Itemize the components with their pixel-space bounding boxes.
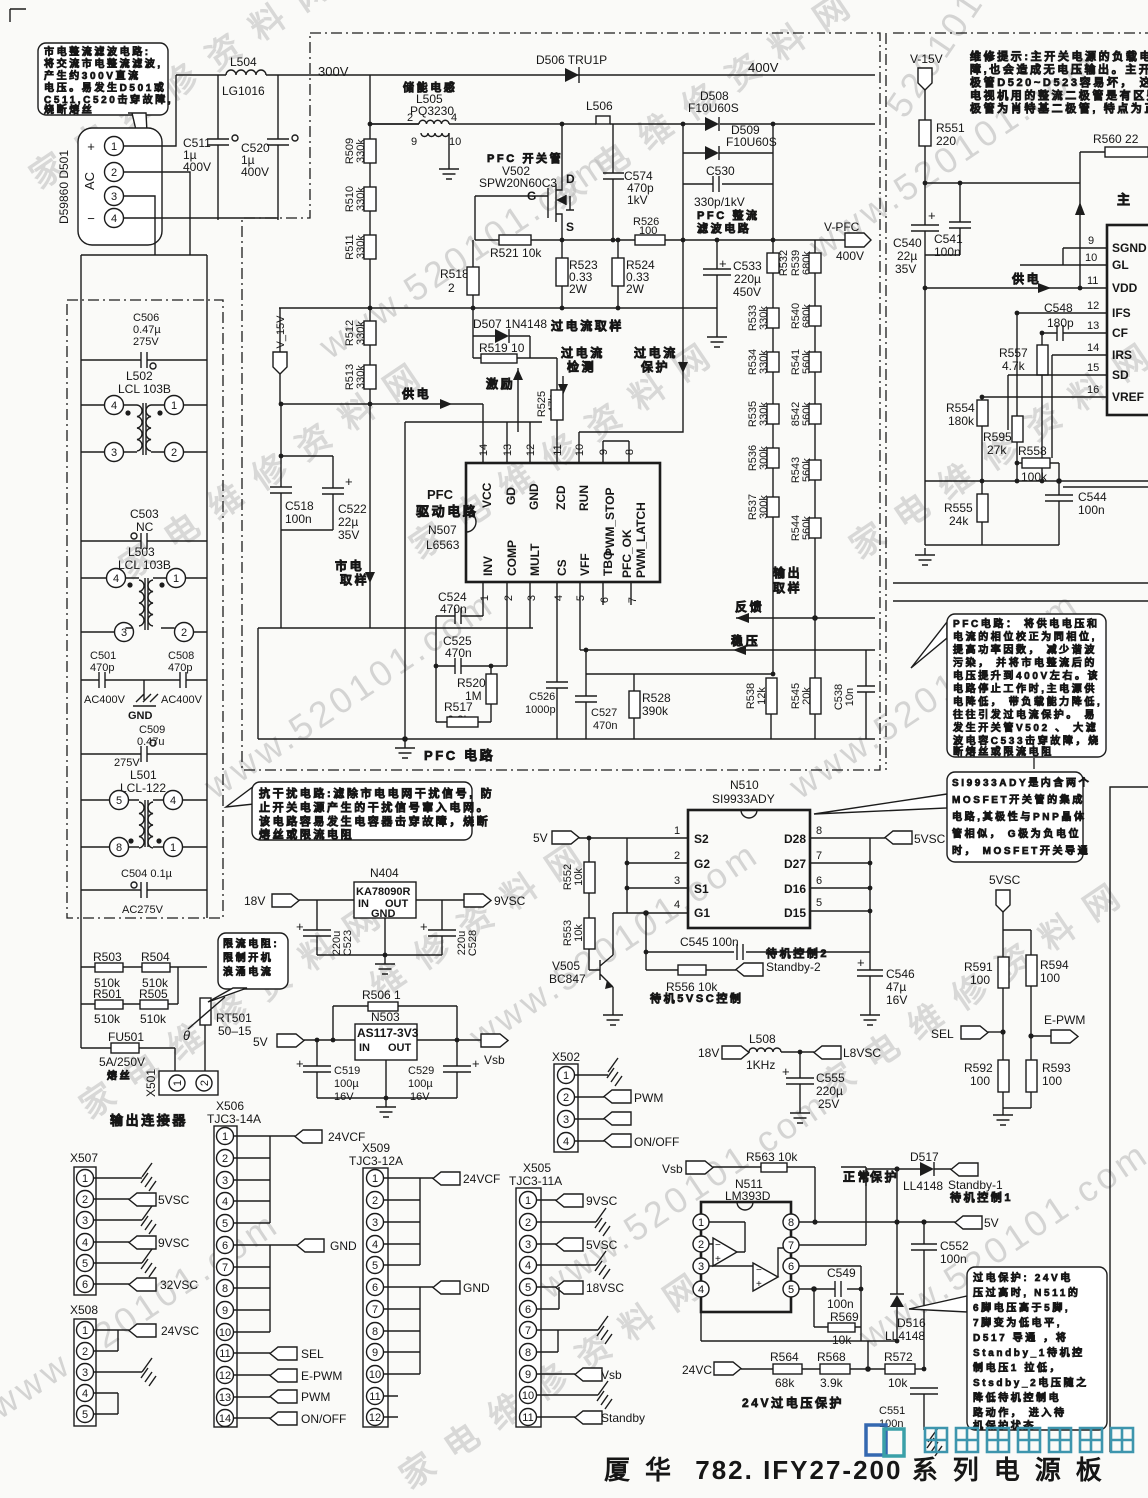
svg-text:IN: IN — [358, 898, 369, 910]
svg-text:C552: C552 — [940, 1239, 969, 1253]
svg-text:LCL-122: LCL-122 — [120, 781, 166, 795]
capacitor C541 — [925, 183, 971, 259]
svg-text:G2: G2 — [694, 857, 710, 871]
svg-text:8: 8 — [624, 449, 636, 455]
wire n404 gnd — [317, 918, 442, 955]
svg-text:障,也会造成无电压输出。主开关: 障,也会造成无电压输出。主开关 — [970, 62, 1148, 76]
svg-text:10: 10 — [449, 136, 461, 148]
ground GND — [128, 680, 158, 722]
svg-text:4: 4 — [222, 1196, 228, 1208]
supply tag V-15V — [910, 52, 943, 120]
connector X506 TJC3-14A — [207, 1099, 261, 1427]
svg-text:COMP: COMP — [505, 540, 519, 576]
capacitor C533 — [703, 240, 762, 330]
svg-text:市电整流滤波电路:: 市电整流滤波电路: — [44, 45, 151, 58]
svg-text:4: 4 — [82, 1388, 88, 1400]
resistor R521 — [490, 235, 542, 260]
svg-text:2: 2 — [407, 112, 413, 124]
diode D508 F10U60S — [688, 89, 739, 131]
svg-text:9: 9 — [411, 136, 417, 148]
svg-text:C522: C522 — [338, 502, 367, 516]
callout: 24V overvoltage protect note — [909, 1267, 1107, 1432]
svg-text:PFC 电路: PFC 电路 — [424, 748, 495, 763]
resistor R552 — [562, 838, 595, 918]
capacitor C552 — [911, 1222, 969, 1369]
svg-text:1000p: 1000p — [525, 704, 556, 716]
svg-text:R520: R520 — [457, 676, 486, 690]
connector X508 — [70, 1303, 98, 1426]
svg-text:13: 13 — [219, 1392, 231, 1404]
svg-text:SEL: SEL — [301, 1347, 324, 1361]
svg-text:6: 6 — [222, 1240, 228, 1252]
capacitor C530 — [683, 164, 773, 235]
svg-text:12: 12 — [525, 444, 537, 456]
svg-text:SEL: SEL — [931, 1027, 954, 1041]
N507 top pin names — [480, 482, 648, 578]
resistor R512 — [344, 320, 376, 346]
wire comparator feedback — [701, 1297, 897, 1369]
svg-text:过电流: 过电流 — [561, 345, 605, 360]
svg-text:电路停止工作时,主电源供: 电路停止工作时,主电源供 — [953, 682, 1097, 695]
svg-text:24VSC: 24VSC — [161, 1324, 199, 1338]
svg-text:2: 2 — [171, 447, 177, 459]
junction dots right — [923, 181, 1083, 484]
resistor R556 standby drive — [646, 965, 736, 994]
wire HV rail — [370, 123, 875, 125]
svg-text:2: 2 — [698, 1239, 704, 1251]
label overcurrent protect — [579, 240, 688, 463]
svg-text:制电压1 拉低，: 制电压1 拉低， — [973, 1361, 1062, 1374]
svg-text:+: + — [296, 1056, 304, 1071]
wire regulation — [580, 582, 875, 655]
svg-text:R532: R532 — [778, 250, 790, 276]
capacitor C549 — [799, 1266, 861, 1311]
tag 9VSC out — [416, 894, 526, 908]
svg-text:Vsb: Vsb — [484, 1053, 505, 1067]
svg-text:450V: 450V — [733, 285, 761, 299]
svg-text:1: 1 — [563, 1070, 569, 1082]
svg-text:−: − — [756, 1265, 762, 1276]
svg-text:16V: 16V — [410, 1091, 430, 1103]
svg-text:1: 1 — [222, 1131, 228, 1143]
svg-text:LCL 103B: LCL 103B — [118, 382, 171, 396]
divider ladder A R532-R537 — [747, 250, 790, 674]
svg-text:R521 10k: R521 10k — [490, 246, 542, 260]
resistor R506 — [333, 988, 457, 1040]
svg-text:24VC: 24VC — [682, 1363, 712, 1377]
svg-text:4: 4 — [698, 1284, 704, 1296]
svg-text:C527: C527 — [591, 707, 617, 719]
svg-text:E-PWM: E-PWM — [301, 1369, 342, 1383]
svg-text:220µ: 220µ — [734, 272, 761, 286]
wire lower bus — [925, 481, 1148, 545]
resistor R564 — [770, 1350, 820, 1390]
svg-text:10: 10 — [1085, 252, 1097, 264]
svg-text:4: 4 — [674, 899, 680, 911]
svg-text:R572: R572 — [884, 1350, 913, 1364]
diode D516 LL4148 — [885, 1294, 926, 1343]
X506 24VCF bus — [234, 1136, 295, 1223]
svg-text:C509: C509 — [139, 724, 165, 736]
svg-text:24VCF: 24VCF — [328, 1130, 365, 1144]
svg-text:驱动电路: 驱动电路 — [416, 504, 478, 519]
svg-text:470p: 470p — [90, 662, 114, 674]
svg-text:PWM: PWM — [301, 1390, 330, 1404]
svg-text:10: 10 — [219, 1327, 231, 1339]
svg-text:C540: C540 — [893, 236, 922, 250]
resistor R524 — [612, 240, 655, 308]
diode D509 F10U60S — [683, 123, 777, 160]
svg-text:300V: 300V — [318, 64, 349, 79]
svg-text:470n: 470n — [593, 720, 617, 732]
svg-text:RUN: RUN — [577, 485, 591, 511]
svg-text:7: 7 — [627, 597, 639, 603]
wire VDD supply — [925, 271, 1107, 293]
svg-text:R564: R564 — [770, 1350, 799, 1364]
capacitor C555 — [782, 1050, 845, 1111]
junction dots n510 — [587, 836, 873, 955]
svg-text:D516: D516 — [897, 1316, 926, 1330]
svg-text:机保护状态: 机保护状态 — [973, 1419, 1036, 1432]
svg-text:SPW20N60C3: SPW20N60C3 — [479, 176, 557, 190]
svg-text:5: 5 — [816, 897, 822, 909]
svg-text:9: 9 — [372, 1347, 378, 1359]
svg-text:GD: GD — [504, 487, 518, 505]
svg-text:1: 1 — [170, 842, 176, 854]
svg-text:R554: R554 — [946, 401, 975, 415]
svg-text:输出: 输出 — [773, 565, 802, 580]
svg-text:电降低， 带负载能力降低,: 电降低， 带负载能力降低, — [953, 695, 1102, 708]
svg-text:发生开关管V502 、 大滤: 发生开关管V502 、 大滤 — [952, 721, 1098, 734]
svg-text:7: 7 — [372, 1304, 378, 1316]
svg-text:S: S — [566, 220, 574, 234]
svg-text:12: 12 — [1087, 300, 1099, 312]
svg-text:13: 13 — [1087, 320, 1099, 332]
svg-text:4.7k: 4.7k — [1002, 359, 1026, 373]
svg-text:4: 4 — [563, 1136, 569, 1148]
svg-text:16V: 16V — [334, 1091, 354, 1103]
svg-text:CF: CF — [1112, 326, 1128, 340]
tag 24VC — [682, 1362, 773, 1377]
svg-text:1: 1 — [525, 1195, 531, 1207]
svg-text:1: 1 — [172, 1080, 184, 1086]
label normal protect — [841, 1167, 899, 1186]
svg-text:5VSC: 5VSC — [989, 873, 1021, 887]
wire divider column — [369, 75, 371, 628]
svg-text:−: − — [715, 1240, 721, 1251]
svg-text:PFC电路： 将供电电压和: PFC电路： 将供电电压和 — [953, 617, 1100, 630]
svg-text:C545 100n: C545 100n — [680, 935, 739, 949]
capacitor C509 — [81, 724, 207, 769]
svg-text:5: 5 — [82, 1409, 88, 1421]
svg-text:2: 2 — [222, 1153, 228, 1165]
resistor R560 — [1075, 132, 1148, 288]
svg-text:波电容C533击穿故障，烧: 波电容C533击穿故障，烧 — [953, 734, 1101, 747]
svg-text:PFC 整流: PFC 整流 — [697, 208, 760, 222]
svg-text:断熔丝或限流电阻: 断熔丝或限流电阻 — [953, 745, 1054, 758]
svg-text:VREF: VREF — [1112, 390, 1144, 404]
resistor R504 — [141, 950, 170, 990]
svg-text:C518: C518 — [285, 499, 314, 513]
capacitor C574 — [603, 124, 654, 240]
svg-text:X505: X505 — [523, 1161, 551, 1175]
svg-text:往往引发过电流保护。 易: 往往引发过电流保护。 易 — [953, 708, 1097, 721]
divider ladder B R539-R544 — [790, 240, 821, 678]
svg-text:+: + — [928, 208, 936, 223]
N507 bottom pin numbers — [479, 595, 639, 603]
resistor R558 — [1017, 444, 1059, 484]
capacitor C518 — [270, 404, 314, 530]
svg-text:C519: C519 — [334, 1065, 360, 1077]
svg-text:1: 1 — [82, 1325, 88, 1337]
X502 pin4 ON/OFF — [574, 1140, 604, 1142]
svg-text:C551: C551 — [879, 1405, 905, 1417]
svg-text:取样: 取样 — [773, 580, 802, 595]
svg-text:C529: C529 — [408, 1065, 434, 1077]
svg-text:X509: X509 — [362, 1141, 390, 1155]
resistor R555 — [944, 494, 988, 545]
capacitor C544 — [1045, 481, 1107, 545]
svg-text:ON/OFF: ON/OFF — [634, 1135, 679, 1149]
svg-text:烧断熔丝: 烧断熔丝 — [44, 103, 94, 116]
svg-text:N404: N404 — [370, 866, 399, 880]
svg-text:F10U60S: F10U60S — [726, 135, 777, 149]
svg-text:MULT: MULT — [528, 543, 542, 576]
svg-text:10k: 10k — [888, 1376, 908, 1390]
svg-text:3: 3 — [525, 1239, 531, 1251]
wire v-15 rail — [925, 182, 1080, 184]
IC N511 LM393D — [693, 1177, 799, 1312]
svg-text:10n: 10n — [844, 688, 856, 706]
capacitor C519 — [296, 1040, 360, 1103]
svg-text:D27: D27 — [784, 857, 806, 871]
svg-text:检测: 检测 — [567, 359, 596, 374]
svg-text:PFC: PFC — [427, 487, 454, 502]
resistor R595 — [983, 416, 1023, 481]
connector X505 TJC3-11A — [509, 1161, 562, 1427]
svg-text:Standby-1: Standby-1 — [948, 1178, 1003, 1192]
resistor R572 — [884, 1350, 924, 1390]
logo text — [925, 1428, 1133, 1452]
svg-text:6: 6 — [525, 1304, 531, 1316]
svg-text:10: 10 — [369, 1369, 381, 1381]
svg-text:2: 2 — [563, 1092, 569, 1104]
svg-text:6: 6 — [82, 1279, 88, 1291]
svg-text:L8VSC: L8VSC — [843, 1046, 881, 1060]
svg-text:22µ: 22µ — [897, 249, 917, 263]
tag SEL — [931, 1026, 1006, 1041]
tag E-PWM — [1028, 1013, 1085, 1043]
svg-text:TJC3-12A: TJC3-12A — [349, 1154, 403, 1168]
svg-text:11: 11 — [369, 1391, 380, 1403]
svg-text:X506: X506 — [216, 1099, 244, 1113]
svg-text:2: 2 — [372, 1195, 378, 1207]
inductor L504 — [222, 55, 266, 98]
capacitor C546 — [857, 955, 915, 1008]
wire D508 branch rails — [683, 124, 773, 253]
capacitor C504 — [81, 868, 207, 916]
resistor R511 — [344, 234, 376, 259]
svg-text:11: 11 — [219, 1348, 230, 1360]
svg-text:6: 6 — [816, 875, 822, 887]
svg-text:1: 1 — [674, 825, 680, 837]
resistor R553 — [562, 918, 595, 970]
svg-text:D517 导通 ，将: D517 导通 ，将 — [973, 1331, 1068, 1344]
svg-text:1: 1 — [173, 573, 179, 585]
svg-text:180k: 180k — [948, 414, 975, 428]
svg-text:N503: N503 — [371, 1010, 400, 1024]
capacitor C511 — [183, 75, 238, 220]
svg-text:限制开机: 限制开机 — [223, 951, 273, 964]
svg-text:L508: L508 — [749, 1032, 776, 1046]
capacitor C527 — [575, 650, 617, 739]
svg-text:5V: 5V — [984, 1216, 999, 1230]
svg-text:8: 8 — [816, 825, 822, 837]
svg-text:时， MOSFET开关导通: 时， MOSFET开关导通 — [952, 844, 1090, 857]
svg-text:3: 3 — [82, 1367, 88, 1379]
wire gate row — [475, 239, 845, 241]
svg-text:市电: 市电 — [335, 558, 364, 573]
svg-text:12: 12 — [219, 1370, 231, 1382]
svg-text:Standby_1待机控: Standby_1待机控 — [973, 1346, 1085, 1359]
svg-text:R591: R591 — [964, 960, 993, 974]
capacitor C501 — [84, 650, 126, 706]
svg-text:抗干扰电路:滤除市电电网干扰信号, 防: 抗干扰电路:滤除市电电网干扰信号, 防 — [259, 786, 494, 800]
svg-text:3: 3 — [674, 875, 680, 887]
svg-text:5VSC: 5VSC — [158, 1193, 190, 1207]
svg-text:R501: R501 — [93, 987, 122, 1001]
svg-text:390k: 390k — [642, 704, 669, 718]
inductor L508 — [698, 1032, 814, 1072]
svg-text:R569: R569 — [830, 1310, 859, 1324]
svg-text:6: 6 — [372, 1282, 378, 1294]
svg-text:2: 2 — [181, 627, 187, 639]
svg-text:ZCD: ZCD — [554, 485, 568, 510]
svg-text:3: 3 — [111, 191, 117, 203]
svg-text:电压提升到400V左右。该: 电压提升到400V左右。该 — [953, 669, 1100, 682]
svg-text:滤波电路: 滤波电路 — [697, 221, 751, 235]
svg-text:R503: R503 — [93, 950, 122, 964]
op-amp A — [709, 1222, 745, 1266]
main board output bus lines — [893, 583, 1148, 601]
svg-text:7: 7 — [816, 850, 822, 862]
svg-text:C555: C555 — [816, 1071, 845, 1085]
wire VREF — [982, 397, 1107, 400]
svg-text:G1: G1 — [694, 906, 710, 920]
resistor R523 — [556, 240, 598, 308]
svg-text:C546: C546 — [886, 967, 915, 981]
svg-text:2: 2 — [82, 1194, 88, 1206]
svg-text:极管为肖特基二极管, 特点为正: 极管为肖特基二极管, 特点为正 — [970, 101, 1148, 115]
connector X509 TJC3-12A — [349, 1141, 403, 1427]
svg-text:2: 2 — [525, 1217, 531, 1229]
wire pin7 protection — [799, 1169, 920, 1245]
svg-text:C501: C501 — [90, 650, 116, 662]
svg-text:OUT: OUT — [388, 1042, 412, 1054]
svg-text:11: 11 — [1087, 275, 1098, 287]
svg-text:100n: 100n — [934, 245, 961, 259]
resistor R545 — [790, 678, 821, 739]
svg-text:L504: L504 — [230, 55, 257, 69]
svg-text:PQ3230: PQ3230 — [410, 104, 454, 118]
svg-text:V_15V: V_15V — [275, 315, 287, 349]
svg-text:8: 8 — [222, 1283, 228, 1295]
resistor R501 — [93, 987, 123, 1026]
wire SD — [1008, 375, 1107, 430]
svg-text:2W: 2W — [569, 282, 588, 296]
svg-text:R528: R528 — [642, 691, 671, 705]
svg-text:5: 5 — [575, 595, 587, 601]
inductor L506 — [586, 99, 613, 124]
svg-text:3: 3 — [526, 595, 538, 601]
svg-text:35V: 35V — [338, 528, 359, 542]
svg-text:待机控制1: 待机控制1 — [949, 1190, 1013, 1204]
svg-text:180p: 180p — [1047, 316, 1074, 330]
svg-text:D59860 D501: D59860 D501 — [57, 150, 71, 224]
svg-text:12: 12 — [369, 1412, 381, 1424]
svg-text:100: 100 — [970, 1074, 990, 1088]
ground L505 — [439, 162, 459, 179]
svg-text:KA78090R: KA78090R — [356, 886, 410, 898]
svg-text:5VSC: 5VSC — [914, 832, 946, 846]
svg-text:SGND: SGND — [1112, 241, 1147, 255]
resistor R538 — [745, 678, 777, 739]
supply tag 5VSC — [989, 873, 1031, 957]
svg-text:提高功率因数， 减少谐波: 提高功率因数， 减少谐波 — [953, 643, 1097, 656]
svg-text:R560 22: R560 22 — [1093, 132, 1139, 146]
svg-text:限流电阻:: 限流电阻: — [223, 937, 279, 950]
svg-text:3: 3 — [372, 1217, 378, 1229]
svg-text:35V: 35V — [895, 262, 916, 276]
svg-text:R518: R518 — [440, 267, 469, 281]
svg-text:R551: R551 — [936, 121, 965, 135]
svg-text:+: + — [782, 1064, 790, 1079]
svg-text:C544: C544 — [1078, 490, 1107, 504]
wire pfc ground bus — [258, 738, 875, 740]
svg-text:275V: 275V — [133, 336, 159, 348]
svg-text:5: 5 — [788, 1284, 794, 1296]
svg-text:C530: C530 — [706, 164, 735, 178]
svg-text:4: 4 — [525, 1260, 531, 1272]
svg-text:激励: 激励 — [486, 376, 515, 391]
svg-text:熔丝: 熔丝 — [107, 1069, 132, 1082]
svg-text:维修提示:主开关电源的负载电: 维修提示:主开关电源的负载电 — [970, 49, 1148, 63]
svg-text:3: 3 — [121, 627, 127, 639]
resistor R517 — [436, 700, 491, 727]
filter rails — [81, 255, 207, 918]
wire pins 9 8 — [603, 441, 629, 463]
resistor R510 — [344, 186, 376, 212]
X509 GND bus — [384, 1287, 433, 1374]
svg-text:待机控制2: 待机控制2 — [765, 946, 829, 960]
svg-text:9: 9 — [525, 1369, 531, 1381]
logo icon — [866, 1425, 904, 1456]
X506 signal pins — [234, 1353, 270, 1418]
resistor R518 — [440, 240, 479, 308]
svg-text:4: 4 — [451, 112, 457, 124]
svg-text:IFS: IFS — [1112, 306, 1131, 320]
wire 300V rail — [176, 74, 875, 76]
capacitor C548 — [1042, 301, 1107, 341]
svg-text:50–15: 50–15 — [218, 1024, 252, 1038]
resistor R594 — [1026, 955, 1069, 1060]
svg-text:3: 3 — [222, 1175, 228, 1187]
svg-text:D28: D28 — [784, 832, 806, 846]
note: repair hint main SMPS — [970, 49, 1148, 115]
svg-text:V-15V: V-15V — [910, 52, 943, 66]
svg-text:R593: R593 — [1042, 1061, 1071, 1075]
svg-text:TJC3-11A: TJC3-11A — [509, 1174, 562, 1188]
